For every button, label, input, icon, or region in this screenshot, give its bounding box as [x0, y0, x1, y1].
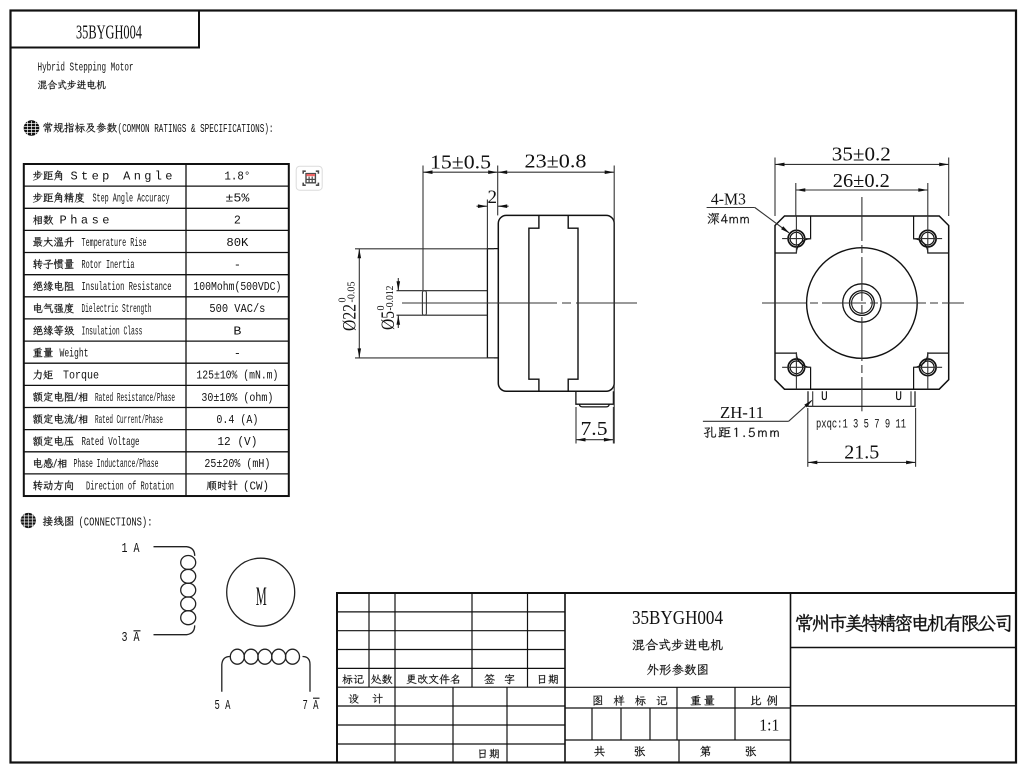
mounting hole top-right	[914, 216, 943, 253]
svg-text:Rated Current/Phase: Rated Current/Phase	[95, 413, 163, 427]
svg-text:Rotor Inertia: Rotor Inertia	[82, 258, 135, 272]
mounting hole bottom-right	[914, 352, 943, 389]
dimension Ø22 extension lines	[355, 248, 494, 250]
overline on A of terminal 7	[313, 697, 320, 699]
title block main vertical dividers	[564, 593, 566, 763]
svg-text:2: 2	[234, 214, 241, 228]
svg-text:Hybrid Stepping Motor: Hybrid Stepping Motor	[38, 60, 134, 74]
overline on A of terminal 3	[134, 630, 141, 632]
svg-text:Insulation Resistance: Insulation Resistance	[82, 280, 172, 294]
table row 11 label cjk	[33, 392, 87, 402]
wire from terminal 5	[222, 657, 230, 692]
svg-text:0.4 (A): 0.4 (A)	[216, 413, 258, 427]
table row 7 label cjk	[34, 303, 74, 313]
front view connector pin slot 1	[822, 391, 826, 399]
dimension 2 extension line	[486, 200, 488, 249]
svg-text:(COMMON RATINGS & SPECIFICATIO: (COMMON RATINGS & SPECIFICATIONS):	[118, 122, 274, 136]
side view left lamination joint line	[529, 215, 539, 391]
svg-text:3 A: 3 A	[122, 631, 141, 646]
table row 12 label cjk	[33, 414, 87, 424]
dimension Ø22 text (rotated)	[338, 282, 361, 332]
front view corner pocket bottom-left	[775, 353, 811, 389]
cell bottom 日期	[479, 749, 499, 759]
svg-text:125±10% (mN.m): 125±10% (mN.m)	[196, 369, 278, 383]
header chinese name 混合式步进电机	[38, 80, 106, 90]
front view horizontal centerline	[762, 302, 964, 304]
svg-text:500 VAC/s: 500 VAC/s	[209, 302, 265, 316]
front view corner pocket top-right	[914, 216, 949, 253]
table row 13 label cjk	[33, 436, 74, 446]
specifications table grid	[24, 164, 289, 496]
svg-text:Torque: Torque	[63, 369, 99, 383]
table row 9 label cjk	[33, 348, 53, 358]
svg-text:Weight: Weight	[60, 346, 89, 360]
header cell 处数	[371, 674, 392, 684]
table row 15 label cjk	[33, 480, 73, 490]
label 图样标记	[594, 695, 668, 705]
table row 6 label cjk	[33, 281, 74, 291]
svg-text:(CW): (CW)	[243, 479, 269, 493]
small table viewer icon	[296, 166, 322, 190]
wire to terminal 3	[154, 625, 195, 634]
title block middle grid	[565, 687, 791, 763]
front view shaft circle	[850, 291, 875, 316]
label 共张	[594, 746, 645, 757]
section heading 常规指标及参数	[43, 122, 117, 132]
front view corner pocket bottom-right	[914, 353, 949, 389]
part number title box	[11, 11, 200, 48]
section heading 接线图	[43, 516, 74, 526]
dimension 23±0.8 extension line right	[613, 166, 615, 444]
title block outer lines	[337, 593, 1017, 763]
side view shaft bottom line	[397, 314, 488, 316]
front view connector inner walls	[812, 391, 814, 406]
wire to terminal 7	[303, 657, 311, 692]
svg-text:5 A: 5 A	[215, 699, 232, 714]
change record table lower rows	[337, 687, 565, 763]
header cell 更改文件名	[407, 674, 460, 684]
dimension 15±0.5 extension line left	[422, 166, 424, 291]
dimension 7.5 line	[576, 439, 613, 441]
svg-text:ZH-11: ZH-11	[720, 403, 764, 422]
table row 4 label cjk	[33, 237, 74, 247]
svg-text:Temperature Rise: Temperature Rise	[82, 236, 147, 250]
label 孔距1.5mm text	[704, 427, 779, 438]
svg-text:26±0.2: 26±0.2	[833, 171, 890, 192]
front view bearing boss circle	[843, 284, 881, 322]
wire from terminal 1	[154, 547, 195, 556]
dimension 26±0.2 line	[796, 189, 928, 191]
company name 常州市美特精密电机有限公司	[796, 614, 1010, 632]
svg-text:Ø22: Ø22	[341, 304, 361, 331]
side view motor body outline	[498, 215, 614, 391]
title block 混合式步进电机	[633, 639, 723, 651]
table row 3 label cjk	[33, 215, 53, 225]
table row 10 label cjk	[33, 370, 53, 380]
dimension 7.5 extension lines	[575, 407, 577, 444]
dimension Ø22 line	[358, 249, 360, 358]
side view connector lip	[579, 404, 609, 407]
header cell 签字	[484, 674, 514, 684]
svg-text:30±10% (ohm): 30±10% (ohm)	[201, 391, 273, 405]
dimension shared extension line (mounting face)	[497, 166, 499, 216]
dimension 21.5 extension lines	[807, 408, 809, 467]
svg-text:2: 2	[488, 187, 498, 208]
svg-text:Rated Voltage: Rated Voltage	[82, 435, 140, 449]
svg-text:23±0.8: 23±0.8	[525, 152, 587, 173]
coil A (vertical winding)	[181, 556, 196, 625]
dimension Ø5 text (rotated)	[376, 286, 399, 331]
label 重量	[691, 695, 715, 705]
dimension 35±0.2 line	[775, 163, 949, 165]
dimension 15±0.5 line	[423, 171, 498, 173]
coil B (horizontal winding)	[230, 649, 299, 664]
table row 14 label cjk	[34, 458, 67, 468]
dimension 21.5 line	[808, 461, 916, 463]
svg-text:4-M3: 4-M3	[711, 189, 746, 208]
label 比例	[751, 695, 777, 705]
table row 8 label cjk	[33, 325, 74, 335]
cell 设计	[349, 694, 383, 704]
svg-text:1:1: 1:1	[759, 716, 779, 735]
svg-text:(CONNECTIONS):: (CONNECTIONS):	[79, 515, 153, 529]
side view connector body	[576, 391, 614, 404]
svg-text:Dielectric Strength: Dielectric Strength	[82, 302, 152, 316]
table row 1 label cjk	[33, 170, 62, 180]
svg-text:21.5: 21.5	[844, 443, 879, 464]
side view pilot boss	[487, 249, 497, 358]
title block 外形参数图	[647, 664, 708, 676]
front view pilot boss circle	[807, 248, 918, 359]
svg-text:-: -	[234, 258, 241, 272]
svg-text:Step Angle Accuracy: Step Angle Accuracy	[93, 192, 170, 206]
svg-text:±5%: ±5%	[225, 192, 250, 206]
front view vertical centerline	[861, 197, 863, 411]
svg-text:7 A: 7 A	[303, 699, 320, 714]
svg-text:Ø5: Ø5	[379, 311, 399, 330]
front view shaft chamfer circle	[852, 293, 873, 314]
table row 5 label cjk	[33, 259, 74, 269]
mounting hole bottom-left	[782, 352, 811, 389]
svg-text:-: -	[234, 346, 241, 360]
svg-text:15±0.5: 15±0.5	[430, 152, 491, 173]
motor symbol circle	[227, 558, 295, 626]
front view body outline with chamfered corners	[775, 216, 949, 389]
svg-text:35BYGH004: 35BYGH004	[632, 607, 723, 629]
dimension 35±0.2 extension lines	[774, 158, 776, 217]
dimension Ø5 arrow stubs	[397, 278, 399, 291]
svg-text:-0.012: -0.012	[385, 286, 396, 311]
header cell 标记	[342, 674, 363, 684]
label ZH-11 leader line	[703, 420, 789, 422]
svg-text:12 (V): 12 (V)	[217, 435, 257, 449]
dimension 23±0.8 line	[498, 171, 615, 173]
table row 2 label cjk	[33, 192, 84, 202]
company section row lines	[791, 647, 1017, 649]
side view shaft top line	[397, 290, 488, 292]
side view shaft tip chamfer	[422, 291, 426, 316]
svg-text:7.5: 7.5	[581, 419, 608, 440]
side view right lamination joint line	[568, 215, 578, 391]
mounting hole top-left	[782, 216, 811, 253]
header cell 日期	[539, 674, 558, 684]
svg-text:-0.05: -0.05	[347, 282, 358, 303]
svg-text:pxqc:1 3 5 7 9 11: pxqc:1 3 5 7 9 11	[816, 418, 906, 432]
svg-text:Phase Inductance/Phase: Phase Inductance/Phase	[74, 457, 159, 471]
change record table upper rows	[337, 593, 565, 687]
svg-text:80K: 80K	[226, 236, 249, 250]
label 深4mm text	[708, 213, 749, 225]
table row 15 value cjk 顺时针	[207, 480, 238, 490]
section bullet icon (ratings)	[24, 120, 40, 136]
svg-text:M: M	[256, 582, 267, 611]
svg-text:35±0.2: 35±0.2	[832, 145, 891, 166]
svg-text:100Mohm(500VDC): 100Mohm(500VDC)	[193, 280, 281, 294]
svg-text:Direction of Rotation: Direction of Rotation	[86, 479, 174, 493]
side view horizontal centerline	[402, 302, 637, 304]
svg-text:1 A: 1 A	[122, 542, 141, 557]
label 4-M3 leader line	[707, 207, 755, 209]
svg-text:1.8°: 1.8°	[224, 169, 250, 183]
section bullet icon (connections)	[21, 513, 36, 528]
svg-text:Rated Resistance/Phase: Rated Resistance/Phase	[95, 391, 175, 405]
front view connector pin slot 11	[897, 391, 901, 399]
svg-text:Insulation Class: Insulation Class	[82, 324, 143, 338]
front view connector housing	[808, 391, 915, 406]
dimension 26±0.2 extension lines	[795, 183, 797, 216]
svg-text:35BYGH004: 35BYGH004	[76, 23, 142, 44]
svg-text:B: B	[233, 324, 241, 338]
label 第张	[700, 746, 756, 757]
front view corner pocket top-left	[775, 216, 811, 253]
dimension 2 line and arrows	[477, 205, 488, 207]
svg-text:25±20% (mH): 25±20% (mH)	[204, 457, 270, 471]
